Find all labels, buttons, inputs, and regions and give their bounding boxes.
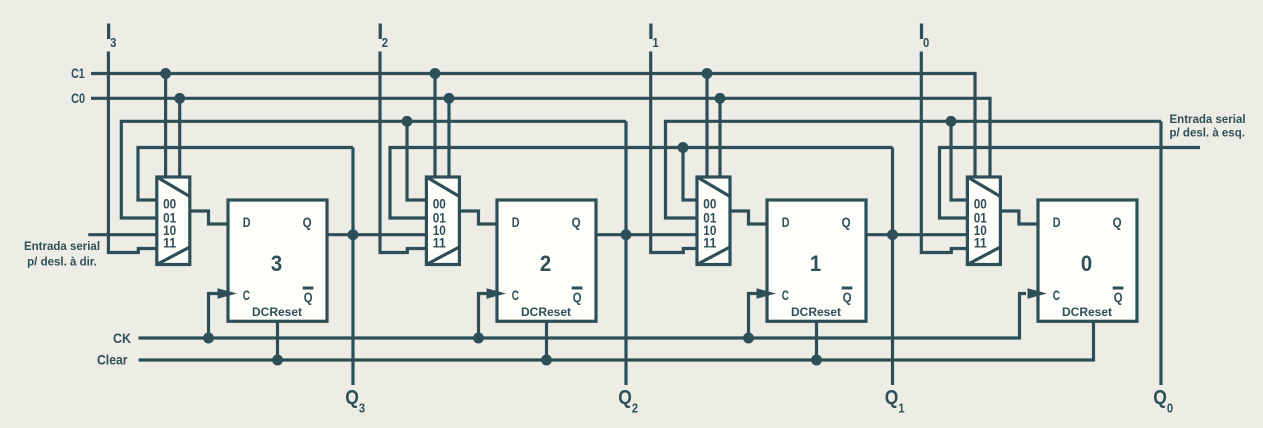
wire serial input left to mux0 input 01	[940, 148, 1201, 219]
wire Q3 output	[327, 233, 426, 236]
svg-text:2: 2	[632, 400, 638, 415]
node C1 tap stage 2	[430, 68, 441, 79]
svg-text:2: 2	[382, 35, 388, 50]
flip-flop 1 body	[767, 200, 866, 321]
wire C1 select drop stage 3	[164, 74, 167, 178]
flip-flop 0 Qbar overbar	[1113, 287, 1124, 290]
flip-flop 2 Qbar overbar	[572, 287, 583, 290]
svg-text:Q: Q	[304, 289, 313, 305]
svg-text:00: 00	[703, 196, 716, 211]
wire Q0 feedback segment	[666, 121, 1162, 218]
wire Q2 feedback segment	[121, 121, 626, 218]
svg-text:C: C	[243, 287, 250, 303]
svg-text:1: 1	[652, 35, 658, 50]
node CK tap stage 1	[743, 333, 754, 344]
wire C0 select drop stage 3	[178, 98, 181, 177]
node clear tap stage 1	[811, 355, 822, 366]
wire Q2 output	[596, 233, 697, 236]
flip-flop 1 Qbar overbar	[842, 287, 853, 290]
svg-text:Q: Q	[573, 289, 582, 305]
label Q0 output	[1153, 386, 1173, 416]
node Q1 feedback tap	[678, 142, 689, 153]
flip-flop 3 pin labels	[243, 214, 313, 305]
label Q2 output	[618, 386, 638, 416]
svg-text:3: 3	[110, 35, 116, 50]
svg-text:Clear: Clear	[97, 353, 128, 368]
label I2	[377, 19, 388, 50]
wire mux0 output to D	[1000, 211, 1038, 224]
svg-text:D: D	[243, 214, 251, 230]
mux 2 input labels 00 01 10 11	[433, 196, 447, 250]
node clear tap stage 3	[272, 355, 283, 366]
mux 1 body	[697, 177, 730, 265]
svg-text:D: D	[1053, 214, 1061, 230]
svg-text:DCReset: DCReset	[1062, 306, 1112, 319]
svg-text:DCReset: DCReset	[791, 306, 841, 319]
label I1	[648, 19, 659, 50]
wire Q2 hold drop	[407, 121, 426, 200]
svg-text:11: 11	[163, 236, 177, 251]
wire C1 select drop stage 2	[433, 74, 436, 178]
wire mux2 output to D	[459, 211, 497, 224]
mux 3 body	[157, 177, 190, 265]
wire C0 rail	[91, 98, 990, 177]
mux 0 input labels 00 01 10 11	[974, 196, 988, 250]
clock arrowhead stage 2	[487, 288, 507, 298]
node clear tap stage 2	[541, 355, 552, 366]
svg-text:Q: Q	[618, 386, 632, 409]
svg-text:11: 11	[703, 236, 717, 251]
svg-text:1: 1	[810, 251, 821, 276]
wire clear drop stage 2	[545, 321, 548, 360]
svg-text:p/ desl. à esq.: p/ desl. à esq.	[1170, 127, 1245, 139]
svg-text:Q: Q	[1113, 214, 1122, 230]
wire C1 select drop stage 1	[705, 74, 708, 178]
mux 1 input labels 00 01 10 11	[703, 196, 717, 250]
svg-text:0: 0	[1081, 251, 1092, 276]
svg-text:Q: Q	[842, 214, 851, 230]
svg-text:DCReset: DCReset	[521, 306, 571, 319]
node C0 tap stage 3	[174, 93, 185, 104]
flip-flop 1 pin labels	[782, 214, 852, 305]
wire I2 to mux input 11	[380, 52, 426, 253]
wire I3 to mux input 11	[108, 52, 156, 253]
svg-text:C0: C0	[71, 91, 85, 106]
flip-flop 2 body	[497, 200, 596, 321]
flip-flop 0 pin labels	[1053, 214, 1123, 305]
svg-text:2: 2	[540, 251, 551, 276]
wire mux1 output to D	[730, 211, 767, 224]
wire I0 to mux input 11	[921, 52, 967, 253]
node Q0 feedback tap	[946, 116, 957, 127]
svg-text:Q: Q	[843, 289, 852, 305]
svg-text:C: C	[782, 287, 789, 303]
clock arrowhead stage 0	[1028, 288, 1048, 298]
wire C0 select drop stage 2	[447, 98, 450, 177]
wire clock elbow stage 3	[209, 294, 219, 339]
label I0	[918, 19, 929, 50]
node C1 tap stage 1	[702, 68, 713, 79]
svg-text:p/ desl. à dir.: p/ desl. à dir.	[27, 257, 97, 269]
svg-text:Q: Q	[1114, 289, 1123, 305]
svg-text:00: 00	[433, 196, 446, 211]
wire clock elbow stage 2	[479, 294, 488, 339]
wire mux3 output to D	[190, 211, 228, 224]
node Q2 feedback tap	[402, 116, 413, 127]
wire clear drop stage 3	[276, 321, 279, 360]
svg-text:DCReset: DCReset	[252, 306, 302, 319]
svg-text:C: C	[1053, 287, 1060, 303]
svg-text:Q: Q	[572, 214, 581, 230]
svg-text:11: 11	[974, 236, 988, 251]
wire I1 to mux input 11	[651, 52, 697, 253]
node Q3 junction	[348, 229, 359, 240]
wire Q1 vertical to output label	[891, 148, 894, 386]
svg-text:CK: CK	[113, 331, 131, 346]
label Entrada serial p/ desl. a dir.	[24, 241, 100, 269]
node Q1 junction	[887, 229, 898, 240]
svg-text:Q: Q	[303, 214, 312, 230]
svg-text:C1: C1	[71, 66, 85, 81]
label Entrada serial p/ desl. a esq.	[1170, 114, 1246, 139]
wire clock elbow stage 1	[749, 294, 758, 339]
svg-text:0: 0	[1167, 400, 1173, 415]
node Q2 junction	[621, 229, 632, 240]
clock arrowhead stage 1	[757, 288, 777, 298]
svg-text:Q: Q	[885, 386, 899, 409]
svg-text:Entrada serial: Entrada serial	[24, 241, 100, 253]
wire serial input right	[88, 233, 157, 236]
flip-flop 0 body	[1038, 200, 1137, 321]
node C0 tap stage 2	[444, 93, 455, 104]
wire Q3 feedback segment	[138, 148, 353, 201]
svg-text:D: D	[782, 214, 790, 230]
mux 0 body	[967, 177, 1000, 265]
svg-text:3: 3	[271, 251, 282, 276]
svg-text:11: 11	[433, 236, 447, 251]
svg-text:00: 00	[163, 196, 176, 211]
node C0 tap stage 1	[715, 93, 726, 104]
wire CK rail	[139, 294, 1027, 339]
wire Q3 vertical to output label	[351, 148, 354, 386]
label I3	[106, 19, 117, 50]
flip-flop 3 Qbar overbar	[303, 287, 314, 290]
svg-text:C: C	[512, 287, 519, 303]
svg-text:D: D	[512, 214, 520, 230]
wire Q0 vertical to output label	[1159, 121, 1162, 385]
svg-text:1: 1	[898, 400, 904, 415]
clock arrowhead stage 3	[218, 288, 238, 298]
flip-flop 2 pin labels	[512, 214, 582, 305]
mux 2 body	[426, 177, 459, 265]
svg-text:3: 3	[359, 400, 365, 415]
flip-flop 3 body	[228, 200, 327, 321]
svg-text:00: 00	[974, 196, 987, 211]
wire C0 select drop stage 1	[718, 98, 721, 177]
node C1 tap stage 3	[160, 68, 171, 79]
node CK tap stage 2	[473, 333, 484, 344]
svg-text:Q: Q	[1153, 386, 1167, 409]
mux 3 input labels 00 01 10 11	[163, 196, 177, 250]
svg-text:Q: Q	[345, 386, 359, 409]
node CK tap stage 3	[203, 333, 214, 344]
wire Q1 feedback segment	[390, 148, 893, 219]
svg-text:0: 0	[923, 35, 929, 50]
wire Q1 output	[866, 233, 967, 236]
wire Q1 hold drop	[683, 148, 697, 201]
wire Q2 vertical to output label	[624, 121, 627, 385]
wire Q0 hold drop	[951, 121, 967, 200]
wire C1 rail	[91, 74, 975, 178]
svg-text:Entrada serial: Entrada serial	[1170, 114, 1246, 126]
wire Clear rail	[139, 321, 1094, 360]
label Q3 output	[345, 386, 365, 416]
wire clear drop stage 1	[815, 321, 818, 360]
label Q1 output	[885, 386, 905, 416]
